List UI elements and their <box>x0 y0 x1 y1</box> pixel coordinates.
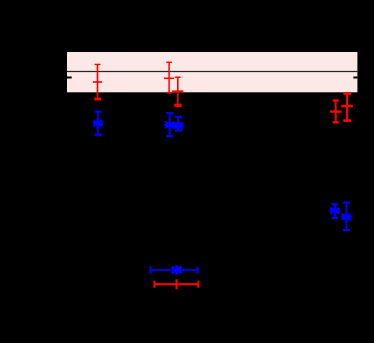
red data point R4 <box>330 99 342 123</box>
left axis tick <box>67 77 72 79</box>
blue data point B3 <box>173 117 184 131</box>
blue data point B2 <box>164 113 175 136</box>
red data point R3 <box>172 77 183 107</box>
pink uncertainty band <box>67 52 357 92</box>
red data point R5 <box>341 92 353 122</box>
right axis tick <box>353 77 357 79</box>
legend entry red <box>154 279 198 289</box>
central value line <box>67 71 357 73</box>
red data point R1 <box>93 64 102 100</box>
red data point R2 <box>164 62 174 92</box>
blue data point B5 <box>341 203 351 231</box>
blue data point B1 <box>93 112 103 135</box>
blue data point B4 <box>330 204 340 218</box>
legend entry blue <box>150 265 197 275</box>
